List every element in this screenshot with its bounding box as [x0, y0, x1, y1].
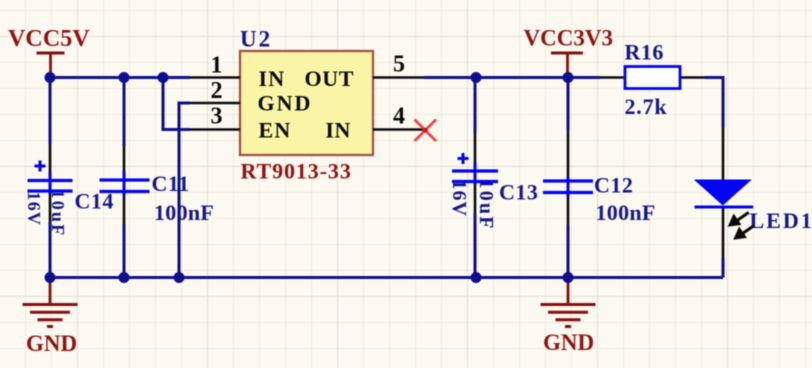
- C14 pin bottom: [49, 193, 52, 222]
- capacitor C11 plates: [100, 171, 150, 196]
- C12 pin top: [567, 130, 570, 177]
- ground symbol left: [23, 278, 78, 327]
- svg-text:GND: GND: [543, 330, 594, 355]
- C14 pin top: [49, 144, 52, 173]
- R16 pin left: [600, 76, 625, 79]
- junction top rail at VCC5V: [45, 72, 56, 83]
- capacitor C14 plus sign: [35, 161, 46, 172]
- no-ERC marker pin 4: [415, 120, 437, 142]
- U2 pin 5 line: [373, 76, 424, 79]
- LED1 pin top: [722, 128, 725, 181]
- wire C11 bottom lead: [123, 224, 126, 278]
- wire R16 to LED corner: [705, 78, 723, 128]
- C11 pin bottom: [123, 196, 126, 225]
- wire LED bottom lead: [722, 258, 725, 278]
- C11 pin top: [123, 146, 126, 171]
- junction bottom rail at GND right: [563, 272, 574, 283]
- capacitor C14 plates: [28, 161, 73, 194]
- svg-text:VCC3V3: VCC3V3: [524, 26, 613, 51]
- LED1 emission arrow 2: [733, 225, 754, 239]
- LED1 pin bottom: [722, 207, 725, 258]
- svg-text:16V: 16V: [448, 180, 470, 217]
- svg-text:VCC5V: VCC5V: [8, 26, 90, 52]
- svg-text:IN: IN: [259, 66, 286, 91]
- svg-text:LED1: LED1: [750, 208, 812, 233]
- R16 pin right: [680, 76, 705, 79]
- IC U2 body: [240, 51, 373, 155]
- junction bottom rail at C13: [471, 272, 482, 283]
- junction OUT rail at C13: [471, 72, 482, 83]
- svg-text:EN: EN: [259, 118, 292, 143]
- pins (black): [50, 78, 723, 258]
- capacitor C13 plus sign: [458, 153, 469, 164]
- junction OUT rail at VCC3V3: [563, 72, 574, 83]
- U2 pin 3 line: [190, 128, 240, 131]
- svg-text:GND: GND: [258, 91, 313, 116]
- diode LED1 triangle: [694, 180, 752, 206]
- wire C14 bottom lead: [49, 222, 52, 278]
- wire C14 top lead: [49, 78, 52, 145]
- svg-text:2: 2: [211, 78, 223, 104]
- junction bottom rail at C11: [119, 272, 130, 283]
- svg-text:2.7k: 2.7k: [625, 94, 668, 119]
- svg-text:4: 4: [393, 104, 405, 130]
- diode LED1 cathode bar: [695, 206, 754, 209]
- svg-text:R16: R16: [625, 40, 664, 65]
- wire EN drop from rail to pin 3: [163, 78, 190, 130]
- svg-text:3: 3: [211, 104, 223, 130]
- C12 pin bottom: [567, 197, 570, 225]
- svg-text:C11: C11: [152, 171, 190, 196]
- svg-text:16V: 16V: [24, 192, 44, 227]
- svg-text:C13: C13: [499, 180, 538, 205]
- capacitor C12 plates: [543, 177, 593, 198]
- junction top rail at C11: [119, 72, 130, 83]
- svg-text:100nF: 100nF: [154, 200, 214, 225]
- wire OUT rail to R16: [424, 76, 600, 79]
- U2 pin 4 line: [373, 128, 424, 131]
- wire C13 bottom lead: [474, 214, 477, 278]
- svg-text:OUT: OUT: [305, 66, 354, 91]
- svg-text:GND: GND: [26, 331, 77, 356]
- wire top rail VCC5V: [50, 76, 190, 79]
- resistor R16 box: [625, 67, 680, 89]
- wire C12 bottom lead: [567, 225, 570, 278]
- svg-text:U2: U2: [240, 27, 272, 52]
- svg-text:5: 5: [393, 52, 405, 78]
- junction bottom rail at GND pin wire: [174, 272, 185, 283]
- C13 pin bottom: [474, 184, 477, 214]
- U2 pin 1 line: [190, 76, 240, 79]
- svg-text:C12: C12: [594, 173, 633, 198]
- power symbol VCC5V bar: [37, 53, 65, 78]
- svg-text:1: 1: [211, 53, 223, 79]
- power symbol VCC3V3 bar: [551, 53, 583, 78]
- svg-text:IN: IN: [325, 118, 351, 143]
- wire C12 top lead: [567, 78, 570, 131]
- U2 pin 2 line: [190, 102, 240, 105]
- junction bottom rail at GND left: [45, 272, 56, 283]
- junction top rail at EN drop: [158, 72, 169, 83]
- wire GND pin 2 down to bottom rail: [179, 103, 190, 278]
- LED1 emission arrow 1: [728, 212, 749, 226]
- svg-text:10uF: 10uF: [475, 179, 497, 231]
- capacitor C13 plates: [452, 153, 498, 185]
- C13 pin top: [474, 133, 477, 163]
- wire C13 top lead: [474, 78, 477, 134]
- wire bottom ground rail: [50, 276, 723, 279]
- svg-text:100nF: 100nF: [596, 200, 656, 225]
- wire C11 top lead: [123, 78, 126, 147]
- svg-text:RT9013-33: RT9013-33: [241, 159, 352, 184]
- wires (navy): [50, 78, 723, 278]
- ground symbol right: [541, 278, 596, 327]
